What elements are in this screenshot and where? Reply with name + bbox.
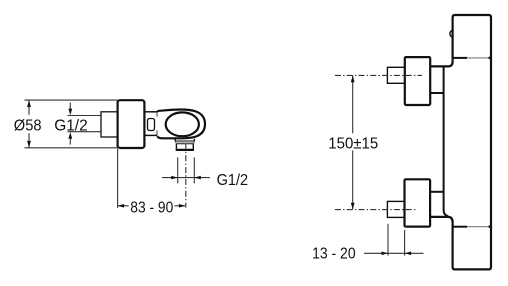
retaining clip detail bbox=[148, 119, 155, 131]
bar mid-section left edge bbox=[444, 67, 449, 216]
outlet centerline (dash-dot) bbox=[185, 144, 187, 208]
83-90 label bbox=[130, 199, 173, 216]
spout G1/2 extension lines bbox=[178, 157, 195, 183]
bottom union centerline (dash-dot) bbox=[335, 209, 417, 211]
G1/2 thread extension line bottom bbox=[68, 131, 102, 133]
escutcheon extension line (83-90 left) bbox=[117, 149, 119, 208]
svg-text:G1/2: G1/2 bbox=[54, 118, 88, 135]
spout G1/2 dimension line with outside arrows bbox=[162, 176, 210, 180]
Ø58 top extension line bbox=[25, 99, 118, 101]
83-90 dimension line with arrows bbox=[118, 204, 186, 208]
13-20 label bbox=[312, 245, 356, 262]
top union centerline (dash-dot) bbox=[335, 74, 422, 76]
150±15 label bbox=[328, 136, 378, 153]
top neck bottom line bbox=[431, 92, 445, 94]
inlet collar bbox=[101, 112, 118, 137]
spout G1/2 label bbox=[217, 172, 249, 189]
clamp ring ticks bbox=[156, 111, 158, 136]
svg-text:13 - 20: 13 - 20 bbox=[312, 245, 356, 262]
Ø58 label bbox=[14, 117, 42, 134]
G1/2 thread extension line top bbox=[68, 115, 102, 117]
top inlet stub bbox=[387, 67, 404, 83]
valve body bbox=[157, 110, 205, 139]
13-20 extension lines bbox=[388, 224, 405, 256]
svg-text:83 - 90: 83 - 90 bbox=[130, 199, 173, 216]
svg-text:Ø58: Ø58 bbox=[14, 117, 42, 134]
top union block bbox=[405, 57, 430, 105]
svg-text:150±15: 150±15 bbox=[328, 136, 378, 153]
Ø58 bottom extension line bbox=[25, 147, 118, 149]
G1/2 label (inlet) bbox=[54, 118, 88, 135]
neck bottom line bbox=[144, 134, 157, 136]
bottom neck top line bbox=[431, 191, 445, 193]
bar main outline bbox=[431, 15, 491, 269]
bottom union block bbox=[405, 179, 431, 226]
13-20 dimension line with outside arrows bbox=[364, 252, 424, 256]
bottom inlet stub bbox=[387, 201, 404, 217]
top seam line bbox=[453, 57, 491, 59]
150±15 dimension line with arrows bbox=[351, 76, 355, 210]
G1/2 dimension arrows (outside, pointing inward) bbox=[68, 103, 72, 145]
escutcheon (wall flange) bbox=[118, 100, 145, 148]
Ø58 dimension line with arrows bbox=[27, 100, 31, 148]
cartridge dome (ellipse) bbox=[166, 112, 199, 136]
outlet (aerator) bbox=[175, 139, 195, 150]
svg-text:G1/2: G1/2 bbox=[217, 172, 249, 189]
top cap bump arc bbox=[450, 31, 452, 37]
neck top line bbox=[144, 111, 157, 113]
bottom seam line bbox=[453, 226, 491, 228]
